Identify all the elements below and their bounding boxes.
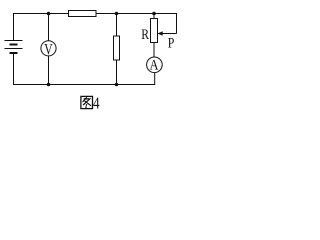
wire: wiper vertical at far right bbox=[176, 13, 178, 34]
svg-text:P: P bbox=[168, 36, 175, 52]
wiper arrowhead P of rheostat bbox=[158, 31, 163, 36]
resistor R1 (top horizontal) bbox=[69, 11, 97, 17]
wire: wiper horizontal lead to arrowhead bbox=[161, 33, 177, 35]
wire: voltmeter branch, meter down to bottom bus bbox=[48, 56, 50, 86]
voltmeter V (circle) bbox=[41, 41, 56, 56]
junction node: top bus / rheostat branch bbox=[152, 12, 156, 16]
wire: middle branch through resistor R2 bbox=[116, 13, 118, 85]
battery B1 bbox=[5, 41, 23, 54]
svg-text:A: A bbox=[150, 58, 159, 74]
junction node: top bus / middle branch bbox=[115, 12, 119, 16]
wire: rheostat branch, top bus down through R to ammeter bbox=[153, 13, 155, 58]
ammeter A (circle) bbox=[147, 57, 163, 73]
svg-text:4: 4 bbox=[93, 94, 100, 113]
rheostat R (vertical resistor body) bbox=[151, 19, 158, 43]
wire: ammeter bottom to bottom bus bbox=[154, 72, 156, 85]
caption glyph 图 (hand drawn) bbox=[81, 96, 93, 108]
wire: bottom horizontal bus bbox=[13, 84, 155, 86]
junction node: bottom bus / middle branch bbox=[115, 83, 119, 87]
wire: voltmeter branch, top bus down to meter bbox=[48, 13, 50, 41]
wire: top horizontal bus from battery to wiper corner bbox=[14, 13, 177, 15]
svg-text:R: R bbox=[141, 27, 149, 43]
svg-text:V: V bbox=[44, 41, 53, 58]
resistor R2 (middle vertical) bbox=[114, 36, 120, 60]
junction node: top bus / voltmeter branch bbox=[47, 12, 51, 16]
wire: left side, top-left corner down to battery positive plate bbox=[13, 13, 15, 41]
junction node: bottom bus / voltmeter branch bbox=[47, 83, 51, 87]
wire: left side, battery negative plate down to bottom-left corner bbox=[13, 54, 15, 86]
